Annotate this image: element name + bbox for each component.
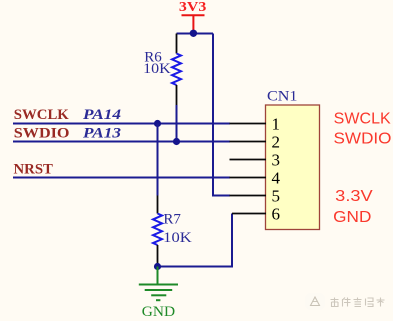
pin 1 stub (230, 123, 267, 125)
pin 2 stub (230, 141, 267, 143)
svg-text:SWCLK: SWCLK (334, 111, 391, 128)
resistor R7 (153, 196, 192, 265)
connector CN1 body (266, 105, 320, 230)
svg-text:10K: 10K (163, 230, 192, 246)
svg-text:SWDIO: SWDIO (334, 131, 392, 148)
wire SWCLK (13, 123, 230, 125)
svg-text:1: 1 (272, 115, 281, 134)
svg-text:5: 5 (272, 187, 281, 206)
svg-text:CN1: CN1 (267, 89, 298, 105)
svg-text:3: 3 (272, 151, 281, 170)
svg-text:R7: R7 (163, 212, 181, 228)
pin lead top (176, 34, 178, 54)
zigzag body (172, 54, 181, 86)
pin lead bottom (157, 245, 159, 264)
pin 5 stub (230, 195, 267, 197)
node junction SWCLK (154, 120, 161, 127)
power port 3V3 bar (182, 14, 205, 16)
wire NRST (13, 177, 230, 179)
ground symbol (139, 267, 178, 301)
svg-text:NRST: NRST (14, 162, 53, 178)
svg-text:GND: GND (333, 209, 371, 226)
svg-text:SWDIO: SWDIO (14, 126, 70, 142)
node junction SWDIO (173, 138, 180, 145)
wire SWCLK vertical down to R7 (157, 124, 159, 196)
power port 3V3 stem (192, 15, 194, 33)
pin 3 stub (230, 159, 267, 161)
svg-text:6: 6 (272, 205, 281, 224)
pin 4 stub (230, 177, 267, 179)
svg-text:4: 4 (272, 169, 281, 188)
svg-text:3.3V: 3.3V (335, 188, 373, 205)
svg-text:PA13: PA13 (83, 126, 122, 142)
resistor R6 (143, 34, 181, 139)
zigzag body (153, 214, 162, 246)
node junction R7/GND (154, 263, 161, 270)
node junction at 3V3 (190, 30, 197, 37)
svg-text:3V3: 3V3 (179, 0, 206, 15)
wire right branch down to pin 5 (213, 34, 230, 196)
svg-text:GND: GND (142, 304, 175, 320)
watermark text (faint CJK strokes drawn as vectors) (331, 298, 385, 307)
svg-text:2: 2 (272, 133, 281, 152)
watermark logo (305, 293, 325, 310)
pin lead top (157, 196, 159, 214)
pin 6 stub (232, 213, 266, 215)
wire top horizontal (177, 33, 214, 35)
svg-text:10K: 10K (143, 61, 171, 77)
svg-text:PA14: PA14 (83, 107, 122, 123)
wire pin 6 to R7 bottom (158, 214, 233, 267)
wire SWDIO (13, 141, 230, 143)
pin lead bottom (176, 85, 178, 105)
svg-text:SWCLK: SWCLK (14, 107, 69, 123)
